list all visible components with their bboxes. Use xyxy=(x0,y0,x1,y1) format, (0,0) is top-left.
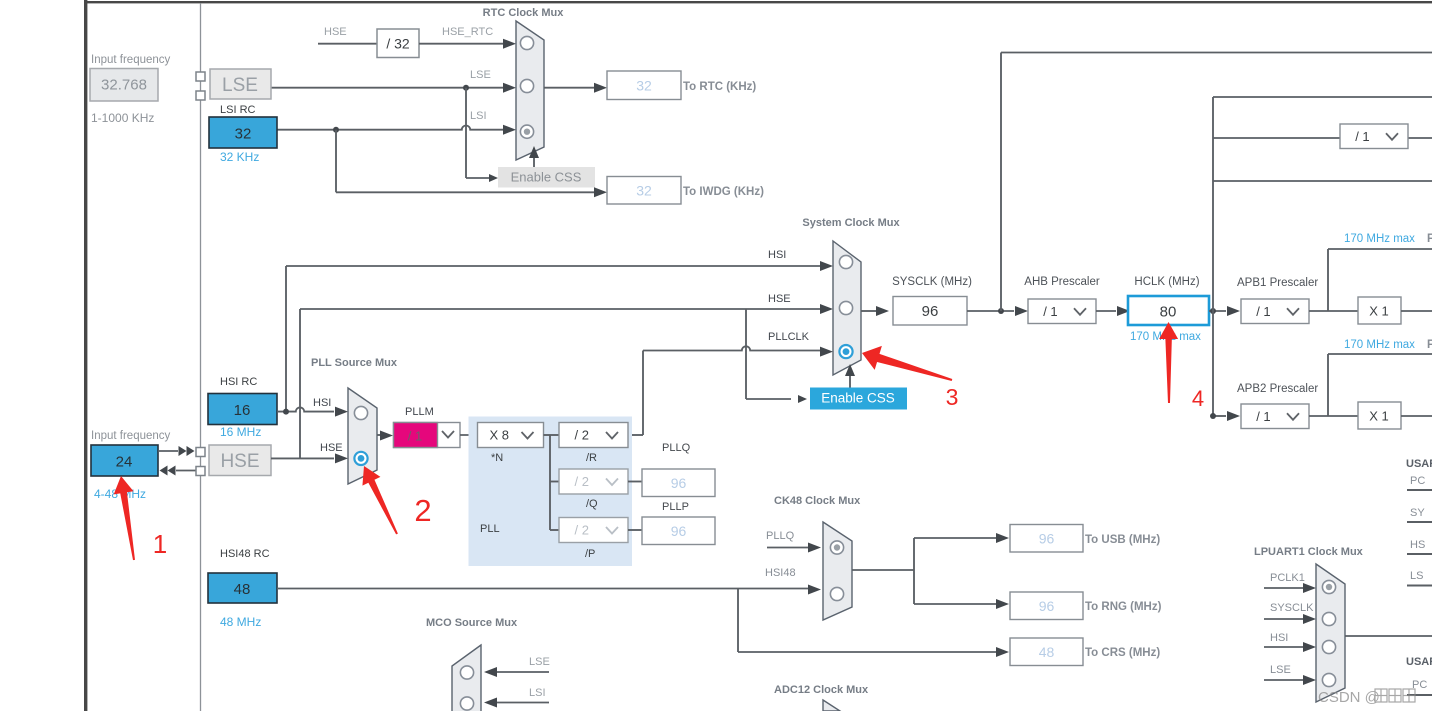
RTC HSE divider box /32 xyxy=(377,29,419,58)
wire HSE pin to 24 box with double arrowheads left xyxy=(176,470,196,472)
wire APB1 X1 output xyxy=(1401,310,1432,312)
HSE pin square upper xyxy=(196,448,205,457)
wire LSE branch down to Enable CSS xyxy=(465,88,467,178)
LSE pin square upper xyxy=(196,72,205,81)
svg-text:96: 96 xyxy=(671,523,687,539)
svg-text:170 MHz max: 170 MHz max xyxy=(1344,339,1415,351)
wire HSI from 16 box to PLL mux with hop over HSE riser xyxy=(277,407,334,411)
LSI RC source box 32 xyxy=(209,117,277,148)
svg-text:APB2 Prescaler: APB2 Prescaler xyxy=(1237,383,1318,395)
top distribution line upper xyxy=(1213,96,1432,98)
svg-text:24: 24 xyxy=(116,454,133,471)
system mux radio HSE xyxy=(839,301,852,314)
svg-text:LSE: LSE xyxy=(529,656,550,668)
svg-text:32 KHz: 32 KHz xyxy=(220,150,259,164)
wire LSI from LSI RC to RTC mux with hop over LSE branch xyxy=(277,125,504,129)
HSE pin square lower xyxy=(196,467,205,476)
HCLK value box 80 highlighted blue xyxy=(1128,296,1209,325)
System Clock Mux body xyxy=(833,241,861,375)
AHB prescaler dropdown /1 xyxy=(1028,299,1096,324)
svg-text:SYSCLK: SYSCLK xyxy=(1270,602,1314,614)
HSI RC source box 16 xyxy=(208,394,277,425)
APB1 prescaler dropdown /1 xyxy=(1241,299,1309,324)
LPUART mux radio HSI xyxy=(1322,640,1335,653)
svg-text:HSE: HSE xyxy=(220,451,259,472)
svg-text:To IWDG (KHz): To IWDG (KHz) xyxy=(683,186,764,198)
svg-text:PC: PC xyxy=(1410,475,1425,487)
svg-text:96: 96 xyxy=(1039,530,1055,546)
svg-text:HSE: HSE xyxy=(768,293,791,305)
wire HSI48 branch down to CRS xyxy=(737,589,739,653)
wire 24 box to HSE pin with double arrowheads right xyxy=(158,450,178,452)
wire AHB to HCLK xyxy=(1096,310,1116,312)
svg-text:LSI: LSI xyxy=(470,110,487,122)
wire system mux output to SYSCLK box xyxy=(861,310,876,312)
svg-text:/ 2: / 2 xyxy=(575,428,589,443)
wire to cortex prescaler xyxy=(1213,137,1340,139)
HSE input frequency box 24 xyxy=(91,445,158,476)
svg-text:X 1: X 1 xyxy=(1369,304,1389,319)
PLLP value box 96 xyxy=(642,517,715,545)
RTC mux radio LSI selected xyxy=(520,125,533,138)
svg-text:PLLQ: PLLQ xyxy=(662,442,691,454)
wire PLL mux output to PLLM xyxy=(377,434,380,436)
HSE oscillator box xyxy=(209,445,271,476)
svg-text:4: 4 xyxy=(1192,386,1204,411)
wire PLLN to /R xyxy=(544,434,560,436)
LSE input frequency box 32.768 xyxy=(90,69,158,102)
HSI48 RC source box 48 xyxy=(208,573,277,603)
junction HCLK fanout APB2 xyxy=(1210,413,1216,419)
svg-text:HCLK (MHz): HCLK (MHz) xyxy=(1134,276,1199,288)
svg-text:To RTC (KHz): To RTC (KHz) xyxy=(683,81,756,93)
wire Enable CSS up into system mux xyxy=(849,376,851,388)
red annotation arrow 4 pointing at HCLK box xyxy=(1159,322,1178,403)
svg-text:USART2: USART2 xyxy=(1406,656,1432,668)
LPUART mux radio PCLK1 selected xyxy=(1322,580,1335,593)
svg-text:PLL Source Mux: PLL Source Mux xyxy=(311,357,398,369)
APB1 timer branch to top xyxy=(1327,249,1329,311)
wire LSE from LSE osc to RTC mux xyxy=(271,87,504,89)
To IWDG value box 32 xyxy=(607,177,681,205)
svg-text:/ 1: / 1 xyxy=(408,429,422,444)
svg-text:PCLK1: PCLK1 xyxy=(1270,572,1305,584)
wire HSE riser to system mux xyxy=(299,309,301,458)
svg-text:HSI: HSI xyxy=(313,397,331,409)
svg-text:PLLM: PLLM xyxy=(405,406,434,418)
wire LPUART mux output xyxy=(1345,635,1432,637)
APB2 prescaler dropdown /1 xyxy=(1241,404,1309,429)
PLLQ dropdown /2 grayed xyxy=(559,469,628,494)
svg-text:/ 1: / 1 xyxy=(1043,304,1057,319)
svg-text:LSE: LSE xyxy=(222,75,258,96)
To RTC value box 32 xyxy=(607,71,681,100)
wire HSE branch into Enable CSS xyxy=(746,398,791,400)
Enable CSS button (system, active blue) xyxy=(810,388,907,410)
svg-text:USART1: USART1 xyxy=(1406,458,1432,470)
PLL mux radio HSI xyxy=(354,406,367,419)
chip pin boundary vertical line xyxy=(200,3,202,711)
svg-text:AHB Prescaler: AHB Prescaler xyxy=(1024,276,1100,288)
svg-text:SYSCLK (MHz): SYSCLK (MHz) xyxy=(892,276,972,288)
svg-text:96: 96 xyxy=(1039,598,1055,614)
svg-text:96: 96 xyxy=(922,303,939,320)
To CRS value box 48 xyxy=(1010,638,1083,666)
PLL block panel xyxy=(469,417,633,567)
svg-text:32: 32 xyxy=(636,182,652,198)
wire PCLK1 stub USART2 xyxy=(1407,694,1432,696)
svg-text:LS: LS xyxy=(1410,570,1423,582)
HCLK vertical distribution line xyxy=(1212,97,1214,416)
wire PCLK1 stub into LPUART mux xyxy=(1264,587,1303,589)
wire HSE to /32 divider xyxy=(318,43,377,45)
MCO mux radio LSE xyxy=(460,666,473,679)
wire /P to PLLP box xyxy=(628,529,642,531)
svg-text:80: 80 xyxy=(1160,304,1177,321)
svg-text:/R: /R xyxy=(586,452,597,464)
svg-text:/ 2: / 2 xyxy=(575,523,589,538)
wire SYSCLK riser to top distribution line xyxy=(1000,53,1002,312)
RTC Clock Mux body xyxy=(516,21,544,160)
svg-text:HSE: HSE xyxy=(324,26,347,38)
wire APB1 to X1 multiplier xyxy=(1309,310,1358,312)
svg-text:1: 1 xyxy=(153,529,167,559)
svg-text:/ 1: / 1 xyxy=(1256,409,1270,424)
svg-text:Enable CSS: Enable CSS xyxy=(511,170,582,185)
APB2 timer multiplier X 1 xyxy=(1358,402,1401,429)
SYSCLK value box 96 xyxy=(893,297,967,326)
wire SYSCLK to AHB prescaler xyxy=(967,310,1014,312)
MCO mux radio LSI xyxy=(460,697,473,710)
junction node LSE branch xyxy=(463,85,469,91)
RTC mux radio HSE_RTC xyxy=(520,36,533,49)
svg-text:/ 1: / 1 xyxy=(1256,304,1270,319)
wire APB2 to X1 multiplier xyxy=(1309,415,1358,417)
svg-text:CK48 Clock Mux: CK48 Clock Mux xyxy=(774,495,861,507)
wire into APB2 prescaler xyxy=(1213,415,1226,417)
wire LSI into MCO mux xyxy=(497,702,549,704)
Cortex prescaler dropdown /1 xyxy=(1340,124,1408,149)
junction HSE branch to Enable CSS xyxy=(745,309,747,399)
svg-text:LSI: LSI xyxy=(529,687,546,699)
svg-text:LSI RC: LSI RC xyxy=(220,104,256,116)
ADC12 Clock Mux body clipped at bottom xyxy=(823,700,840,711)
svg-text:16 MHz: 16 MHz xyxy=(220,425,261,439)
PLLP dropdown /2 grayed xyxy=(559,518,628,543)
CK48 mux radio HSI48 xyxy=(830,587,843,600)
junction HCLK fanout APB1 xyxy=(1210,308,1216,314)
LPUART mux radio SYSCLK xyxy=(1322,612,1335,625)
svg-text:System Clock Mux: System Clock Mux xyxy=(802,217,900,229)
LSE pin square lower xyxy=(196,91,205,100)
svg-text:HSI RC: HSI RC xyxy=(220,376,257,388)
svg-text:HSI48: HSI48 xyxy=(765,567,796,579)
svg-text:Enable CSS: Enable CSS xyxy=(821,391,895,406)
wire PLLCLK from PLL /R with hop over HSE branch xyxy=(628,434,643,436)
red annotation arrow 3 pointing at system mux PLLCLK radio xyxy=(862,346,952,381)
svg-text:32: 32 xyxy=(636,77,652,93)
svg-text:HSI48 RC: HSI48 RC xyxy=(220,548,270,560)
svg-text:PLLP: PLLP xyxy=(662,501,689,513)
red annotation arrow 2 pointing at PLL mux HSE radio xyxy=(362,466,397,534)
wire HSI stub into LPUART mux xyxy=(1264,646,1303,648)
wire /Q to PLLQ box xyxy=(628,481,642,483)
svg-text:32.768: 32.768 xyxy=(101,77,147,94)
MCO Source Mux body (mirrored) xyxy=(452,645,481,711)
system mux radio PLLCLK selected xyxy=(839,345,852,358)
wire CK48 mux output fanout xyxy=(852,569,914,571)
svg-text:ADC12 Clock Mux: ADC12 Clock Mux xyxy=(774,684,869,696)
svg-text:HSE_RTC: HSE_RTC xyxy=(442,26,493,38)
PLL mux radio HSE selected xyxy=(354,452,367,465)
junction HSI fanout xyxy=(283,409,289,415)
svg-text:/ 1: / 1 xyxy=(1355,129,1369,144)
wire PLLQ stub into CK48 mux xyxy=(767,547,808,549)
svg-text:PLL: PLL xyxy=(480,523,500,535)
PLL Source Mux body xyxy=(348,388,377,484)
wire SYSCLK stub USART1 xyxy=(1407,521,1432,523)
PLLN dropdown X 8 xyxy=(478,423,544,448)
Enable CSS button (RTC, inactive) xyxy=(498,167,595,188)
svg-text:/Q: /Q xyxy=(586,498,598,510)
svg-text:F: F xyxy=(1427,233,1432,245)
svg-text:MCO Source Mux: MCO Source Mux xyxy=(426,617,518,629)
PLLQ value box 96 xyxy=(642,469,715,497)
svg-text:*N: *N xyxy=(491,452,503,464)
To USB value box 96 xyxy=(1010,525,1083,553)
CSDN watermark xyxy=(1318,689,1415,706)
svg-text:HSI: HSI xyxy=(1270,632,1288,644)
svg-text:1-1000 KHz: 1-1000 KHz xyxy=(91,111,154,125)
PLLM combo box magenta /1 xyxy=(394,423,461,448)
wire SYSCLK stub into LPUART mux xyxy=(1264,618,1303,620)
svg-text:F: F xyxy=(1427,339,1432,351)
APB2 timer branch to top xyxy=(1327,354,1329,416)
wire LSE stub USART1 xyxy=(1407,585,1432,587)
svg-text:SY: SY xyxy=(1410,507,1425,519)
junction PLLN output branch xyxy=(549,435,551,530)
svg-text:48 MHz: 48 MHz xyxy=(220,615,261,629)
LPUART1 Clock Mux body xyxy=(1316,564,1345,702)
wire PLLM to PLLN xyxy=(460,434,477,436)
page frame: left dark border xyxy=(84,0,87,711)
RTC mux radio LSE xyxy=(520,79,533,92)
svg-text:To RNG (MHz): To RNG (MHz) xyxy=(1085,601,1162,613)
page frame: top dark border xyxy=(84,1,1432,3)
junction node LSI branch to IWDG xyxy=(333,127,339,133)
system mux radio HSI xyxy=(839,255,852,268)
svg-text:APB1 Prescaler: APB1 Prescaler xyxy=(1237,277,1318,289)
svg-text:To USB (MHz): To USB (MHz) xyxy=(1085,534,1160,546)
svg-text:HSE: HSE xyxy=(320,442,343,454)
PLLR dropdown /2 xyxy=(559,423,628,448)
svg-text:170 MHz max: 170 MHz max xyxy=(1344,233,1415,245)
CK48 mux radio PLLQ selected xyxy=(830,541,843,554)
svg-text:Input frequency: Input frequency xyxy=(91,54,171,66)
svg-text:To CRS (MHz): To CRS (MHz) xyxy=(1085,647,1160,659)
wire HSI riser from PLL section to system mux xyxy=(285,266,287,411)
wire HSI48 to CK48 mux xyxy=(277,588,808,590)
svg-text:/P: /P xyxy=(585,548,595,560)
APB1 timer multiplier X 1 xyxy=(1358,297,1401,324)
wire HSE from HSE box to PLL mux xyxy=(271,457,334,459)
svg-text:48: 48 xyxy=(1039,644,1055,660)
svg-text:LPUART1 Clock Mux: LPUART1 Clock Mux xyxy=(1254,546,1364,558)
svg-text:PLLCLK: PLLCLK xyxy=(768,331,810,343)
CK48 Clock Mux body xyxy=(823,522,852,620)
svg-text:3: 3 xyxy=(946,384,959,410)
wire LSE stub into LPUART mux xyxy=(1264,679,1303,681)
wire LSI branch down to IWDG box xyxy=(335,130,337,193)
wire APB2 X1 output xyxy=(1401,415,1432,417)
svg-text:X 8: X 8 xyxy=(490,428,510,443)
svg-text:16: 16 xyxy=(234,402,251,419)
svg-text:2: 2 xyxy=(414,493,431,528)
svg-text:48: 48 xyxy=(234,581,251,598)
svg-text:X 1: X 1 xyxy=(1369,409,1389,424)
svg-text:LSE: LSE xyxy=(1270,664,1291,676)
LSE oscillator box xyxy=(210,69,271,99)
svg-text:LSE: LSE xyxy=(470,69,491,81)
red annotation arrow 1 pointing at 24 box xyxy=(114,476,135,560)
wire HSE_RTC to RTC mux xyxy=(419,43,503,45)
svg-text:PLLQ: PLLQ xyxy=(766,530,795,542)
wire LSE into MCO mux xyxy=(497,671,549,673)
wire Enable CSS up into RTC mux xyxy=(533,156,535,167)
top distribution line lower xyxy=(1213,180,1432,182)
svg-text:/ 2: / 2 xyxy=(575,474,589,489)
wire PCLK2 stub USART1 xyxy=(1407,489,1432,491)
svg-text:HSI: HSI xyxy=(768,249,786,261)
svg-text:/ 32: / 32 xyxy=(386,36,410,52)
svg-text:Input frequency: Input frequency xyxy=(91,430,171,442)
To RNG value box 96 xyxy=(1010,592,1083,620)
junction SYSCLK fanout xyxy=(998,308,1004,314)
svg-text:RTC Clock Mux: RTC Clock Mux xyxy=(483,7,565,19)
wire RTC mux output to RTC value box xyxy=(544,87,594,89)
LPUART mux radio LSE xyxy=(1322,673,1335,686)
svg-text:HS: HS xyxy=(1410,539,1425,551)
svg-text:96: 96 xyxy=(671,475,687,491)
wire HSI stub USART1 xyxy=(1407,553,1432,555)
wire into APB1 prescaler xyxy=(1227,306,1240,316)
svg-text:32: 32 xyxy=(235,126,252,143)
svg-text:CSDN @: CSDN @ xyxy=(1318,689,1380,706)
wire HCLK to APB fanout xyxy=(1209,310,1226,312)
